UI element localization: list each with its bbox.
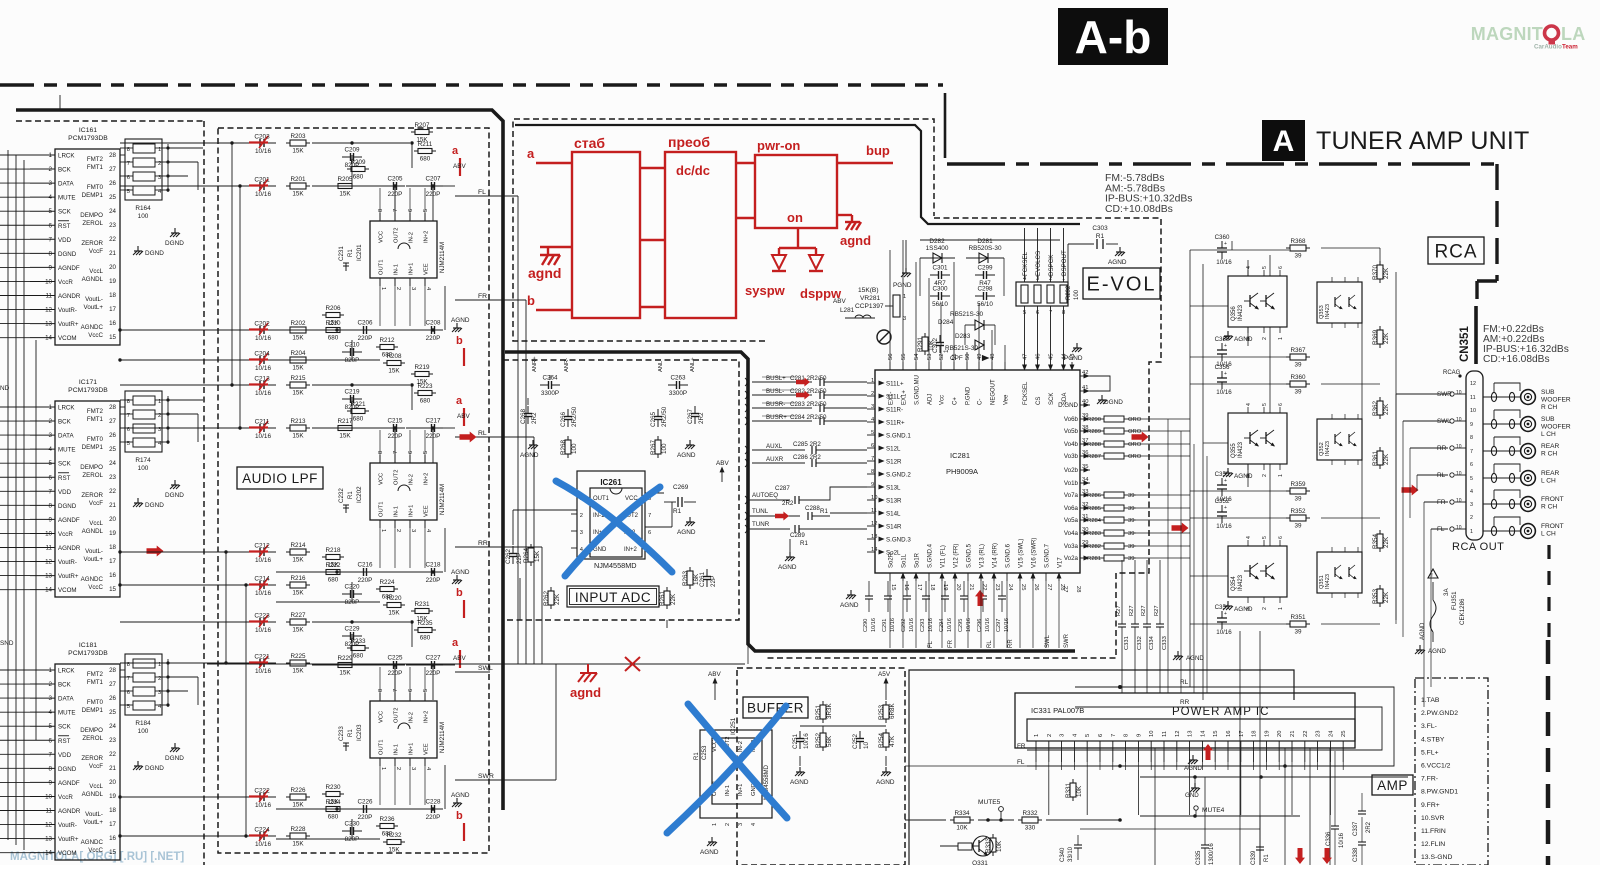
- svg-text:R351: R351: [1290, 614, 1306, 621]
- svg-text:C231: C231: [338, 246, 345, 261]
- svg-text:10K: 10K: [956, 825, 968, 832]
- node pin 29 right IC281: [1080, 545, 1090, 547]
- wire DSP dashed border right: [765, 218, 1161, 658]
- svg-text:VccF: VccF: [89, 763, 103, 770]
- svg-text:C214: C214: [254, 576, 270, 583]
- svg-text:Vcc: Vcc: [940, 395, 946, 405]
- transistor Q353 IN423 pair: [1317, 282, 1362, 323]
- svg-text:VCC: VCC: [379, 711, 385, 723]
- svg-text:MUTE: MUTE: [58, 447, 76, 454]
- svg-text:330: 330: [1025, 825, 1036, 832]
- svg-text:VDD: VDD: [58, 489, 72, 496]
- svg-text:R27: R27: [1154, 605, 1160, 616]
- svg-text:6: 6: [1278, 266, 1284, 269]
- svg-text:WOOFER: WOOFER: [1541, 397, 1571, 404]
- svg-text:R226: R226: [290, 787, 306, 794]
- svg-text:25: 25: [109, 446, 116, 453]
- svg-text:SWL: SWL: [478, 665, 493, 672]
- svg-text:FL: FL: [1437, 526, 1445, 533]
- svg-text:18: 18: [109, 292, 116, 299]
- svg-text:IN-1: IN-1: [394, 744, 400, 755]
- svg-text:R263: R263: [682, 570, 689, 586]
- wire mute row: [905, 819, 946, 821]
- capacitor C208 220P: [423, 329, 432, 331]
- svg-text:D283: D283: [955, 333, 971, 340]
- svg-text:R27: R27: [1141, 605, 1147, 616]
- svg-text:26: 26: [109, 432, 116, 439]
- capacitor C266 2R2/50: [567, 409, 569, 417]
- node AUTOEQ: [748, 499, 790, 501]
- svg-text:22K: 22K: [554, 593, 561, 605]
- svg-text:AGND: AGND: [1420, 622, 1426, 640]
- svg-text:C291: C291: [882, 619, 888, 632]
- resistor R287 ORO: [1104, 453, 1124, 459]
- svg-text:R368: R368: [1290, 238, 1306, 245]
- svg-text:EX1+: EX1+: [902, 390, 908, 405]
- svg-text:15K: 15K: [339, 191, 351, 198]
- svg-text:So1L: So1L: [902, 553, 908, 568]
- svg-text:20: 20: [109, 779, 116, 786]
- svg-text:RL: RL: [1437, 472, 1446, 479]
- ground AGND right of IC261: [689, 517, 691, 522]
- svg-text:39: 39: [1128, 493, 1134, 499]
- svg-text:R291: R291: [917, 336, 924, 352]
- svg-text:C352: C352: [1215, 498, 1230, 505]
- svg-text:C222: C222: [254, 788, 270, 795]
- svg-text:RCA: RCA: [1434, 241, 1477, 262]
- svg-text:C302: C302: [932, 337, 939, 353]
- node pin 38 right IC281: [1080, 430, 1090, 432]
- svg-text:AGND: AGND: [700, 849, 719, 856]
- svg-text:22K: 22K: [1383, 332, 1390, 344]
- svg-text:S12R: S12R: [886, 459, 902, 466]
- node BUSL+: [752, 381, 812, 383]
- svg-text:11: 11: [1162, 731, 1168, 737]
- capacitor C360 10/16: [1221, 241, 1223, 248]
- svg-text:3: 3: [903, 316, 906, 322]
- wire pin list dash-dot box: [1415, 678, 1488, 865]
- svg-text:18: 18: [1252, 731, 1258, 737]
- svg-text:OUT1: OUT1: [379, 260, 385, 275]
- svg-text:10: 10: [1456, 417, 1462, 423]
- svg-text:C218: C218: [425, 562, 441, 569]
- svg-text:3: 3: [410, 287, 416, 290]
- op-amp IC202 NJM2114M: [370, 463, 437, 520]
- svg-text:56: 56: [888, 354, 894, 360]
- svg-text:VCOM: VCOM: [58, 850, 77, 857]
- svg-text:VDD: VDD: [58, 237, 72, 244]
- resistor R216 15K: [290, 582, 306, 588]
- svg-text:39: 39: [1128, 506, 1134, 512]
- svg-text:4: 4: [1246, 266, 1252, 269]
- svg-text:IN423: IN423: [1325, 441, 1331, 456]
- svg-text:7.FR-: 7.FR-: [1421, 776, 1438, 783]
- svg-text:R212: R212: [379, 337, 395, 344]
- svg-text:LRCK: LRCK: [58, 405, 75, 412]
- svg-text:C213: C213: [254, 376, 270, 383]
- svg-text:R CH: R CH: [1541, 451, 1557, 458]
- svg-text:CarAudio: CarAudio: [1534, 44, 1562, 51]
- svg-text:8: 8: [378, 451, 384, 454]
- svg-text:220P: 220P: [426, 433, 441, 440]
- svg-text:Vo3b: Vo3b: [1064, 453, 1079, 460]
- svg-text:10: 10: [1456, 471, 1462, 477]
- svg-text:AGND: AGND: [1186, 655, 1204, 662]
- svg-text:A: A: [1273, 125, 1295, 158]
- resistor R288 ORO: [1104, 441, 1124, 447]
- resistor R223 680: [418, 391, 432, 396]
- svg-text:SCK: SCK: [1049, 393, 1055, 405]
- node X mark red: [625, 657, 640, 671]
- svg-text:agnd: agnd: [570, 685, 601, 700]
- capacitor C294 10/16: [944, 581, 946, 596]
- svg-text:dc/dc: dc/dc: [676, 163, 710, 178]
- svg-text:6: 6: [1470, 462, 1473, 468]
- svg-text:680: 680: [353, 174, 364, 181]
- capacitor C351 10/16: [1221, 611, 1223, 618]
- capacitor C221 10/16: [222, 662, 248, 664]
- wire medium frame around DSP: [515, 125, 1080, 224]
- wire left dashed vertical: [203, 121, 205, 865]
- svg-text:SCK: SCK: [58, 724, 72, 731]
- resistor R353 22K: [1377, 589, 1383, 603]
- svg-text:R211: R211: [418, 141, 433, 148]
- svg-text:AGND: AGND: [1234, 473, 1253, 480]
- resistor R286 39: [1104, 492, 1124, 498]
- ground AGND below IC281: [850, 590, 852, 595]
- svg-text:S11L+: S11L+: [886, 381, 904, 388]
- node pin Vee top IC281: [1004, 362, 1006, 370]
- svg-text:IC261: IC261: [600, 478, 622, 487]
- svg-text:стаб: стаб: [574, 135, 605, 151]
- svg-text:16: 16: [903, 584, 909, 590]
- label AUDIO LPF box: [237, 467, 323, 489]
- svg-text:ORO: ORO: [1128, 454, 1142, 460]
- svg-text:27: 27: [1062, 586, 1068, 592]
- svg-text:R1: R1: [348, 491, 354, 499]
- svg-text:15K: 15K: [339, 670, 351, 677]
- node AUXL: [752, 449, 805, 451]
- capacitor C298 56/10: [975, 295, 984, 297]
- svg-text:4: 4: [1246, 536, 1252, 539]
- arrow red bottom 2: [1322, 848, 1332, 864]
- svg-text:39: 39: [1128, 531, 1134, 537]
- svg-text:7: 7: [1111, 734, 1117, 737]
- svg-text:220P: 220P: [426, 335, 441, 342]
- svg-text:15: 15: [109, 849, 116, 856]
- wire DAC to LPF rows: [120, 142, 222, 144]
- capacitor C262 22P: [512, 546, 514, 554]
- node pin 27 IC281 S.GND.7: [1045, 573, 1047, 581]
- svg-text:22K: 22K: [1383, 536, 1390, 548]
- svg-text:55: 55: [901, 354, 907, 360]
- svg-text:MUTE: MUTE: [58, 195, 76, 202]
- ground AGND adc left: [532, 440, 534, 445]
- label BUFFER box: [743, 697, 808, 718]
- op-amp IC203 NJM2114M: [370, 701, 437, 758]
- svg-text:16: 16: [109, 320, 116, 327]
- svg-text:21: 21: [109, 502, 116, 509]
- svg-text:C211: C211: [255, 419, 270, 426]
- svg-text:24: 24: [1328, 730, 1334, 737]
- resistor R264 15K: [528, 548, 534, 562]
- svg-text:21: 21: [968, 584, 974, 590]
- svg-text:SUB: SUB: [1541, 389, 1555, 396]
- svg-text:b: b: [456, 810, 463, 822]
- svg-text:AGND: AGND: [451, 569, 470, 576]
- svg-text:VccC: VccC: [88, 332, 103, 339]
- svg-text:C265: C265: [650, 411, 657, 427]
- svg-text:Q355: Q355: [1231, 443, 1237, 458]
- svg-text:R292: R292: [1066, 285, 1072, 300]
- svg-text:49: 49: [977, 354, 983, 360]
- svg-text:2R2: 2R2: [698, 412, 705, 424]
- svg-text:3300P: 3300P: [669, 390, 687, 397]
- label AMP box: [1372, 775, 1413, 795]
- svg-text:S11R-: S11R-: [886, 407, 903, 414]
- ground AGND adc right: [689, 440, 691, 445]
- label A TUNER AMP UNIT: [1262, 120, 1305, 161]
- svg-text:BUFFER: BUFFER: [747, 700, 804, 715]
- resistor R360 39: [1290, 381, 1306, 387]
- svg-text:7: 7: [648, 513, 651, 519]
- svg-text:C267: C267: [687, 408, 694, 424]
- svg-text:IC171: IC171: [79, 379, 97, 386]
- resistor R291 10K: [922, 337, 928, 351]
- resistor R228 15K: [290, 833, 306, 839]
- svg-text:10/16: 10/16: [909, 618, 915, 632]
- capacitor C228 220P: [423, 808, 432, 810]
- resistor R289 ORO: [1104, 428, 1124, 434]
- svg-text:5: 5: [423, 209, 429, 212]
- svg-text:R254: R254: [878, 732, 885, 748]
- capacitor C217 220P: [423, 427, 432, 429]
- svg-text:MUTE5: MUTE5: [978, 799, 1001, 806]
- wire unit border right vertical: [1495, 164, 1498, 281]
- svg-text:DGND: DGND: [165, 240, 184, 247]
- resistor R369 22K: [1377, 330, 1383, 344]
- svg-text:46: 46: [1036, 354, 1042, 360]
- resistor network R184 100: [125, 654, 162, 715]
- resistor R263 16K: [687, 571, 693, 585]
- svg-text:PCM1793DB: PCM1793DB: [68, 650, 108, 657]
- svg-text:FR: FR: [478, 293, 487, 300]
- svg-text:FCKSEL: FCKSEL: [1023, 381, 1029, 405]
- svg-text:REAR: REAR: [1541, 443, 1560, 450]
- svg-text:R235: R235: [417, 620, 433, 627]
- svg-text:10/16: 10/16: [1216, 523, 1232, 530]
- svg-text:POWER AMP IC: POWER AMP IC: [1172, 706, 1269, 718]
- svg-text:50: 50: [965, 354, 971, 360]
- svg-text:R225: R225: [290, 653, 306, 660]
- svg-text:VoutL+: VoutL+: [84, 556, 104, 563]
- svg-text:15K: 15K: [292, 365, 304, 372]
- ground agnd red (below ADC): [587, 664, 589, 673]
- wire lpf row B: [312, 185, 386, 187]
- wire unit border corner vertical: [944, 93, 947, 158]
- node pin 14 IC281 So2L: [867, 551, 875, 553]
- capacitor C302: [939, 335, 941, 343]
- svg-text:R204: R204: [290, 350, 306, 357]
- capacitor C261 22P: [706, 569, 708, 577]
- svg-text:RB521S-30: RB521S-30: [945, 345, 978, 352]
- svg-text:IC181: IC181: [79, 642, 97, 649]
- node pin 50 top IC281: [966, 362, 968, 370]
- svg-text:ABV: ABV: [716, 460, 730, 467]
- svg-text:FU351: FU351: [1451, 591, 1458, 610]
- capacitor C356 10/16: [1221, 371, 1223, 378]
- svg-text:39: 39: [1128, 518, 1134, 524]
- svg-text:43: 43: [1070, 354, 1076, 360]
- resistor R370 22K: [1377, 265, 1383, 279]
- svg-text:680: 680: [420, 156, 431, 163]
- svg-text:24: 24: [109, 723, 116, 730]
- svg-text:ZEROR: ZEROR: [81, 492, 103, 499]
- svg-text:23: 23: [109, 737, 116, 744]
- capacitor C268 2R2: [527, 406, 529, 414]
- svg-text:C206: C206: [357, 320, 373, 327]
- svg-text:10/16: 10/16: [890, 618, 896, 632]
- node pin 24 IC281 S.GND.6: [1006, 573, 1008, 581]
- svg-text:IN+2: IN+2: [424, 473, 430, 485]
- svg-text:R232: R232: [386, 832, 402, 839]
- svg-text:54: 54: [914, 353, 920, 360]
- svg-text:R359: R359: [1290, 481, 1306, 488]
- svg-text:DATA: DATA: [58, 433, 74, 440]
- svg-text:RR: RR: [1437, 445, 1447, 452]
- ground AGND under IC251: [711, 837, 713, 842]
- capacitor C295 10/16: [963, 581, 965, 596]
- node pin 36 right IC281: [1080, 455, 1090, 457]
- wire lpf opamp pin risers: [379, 667, 381, 700]
- connector RCA jack FRONT L CH: [1483, 530, 1520, 532]
- svg-text:VoutR+: VoutR+: [58, 573, 79, 580]
- node pin 18 IC281 S.GND.4: [928, 573, 930, 581]
- svg-text:9.FR+: 9.FR+: [1421, 802, 1440, 809]
- svg-text:AGND: AGND: [520, 452, 539, 459]
- op-amp IC261 NJM4558MD: [577, 471, 645, 559]
- svg-text:R281: R281: [1087, 556, 1101, 562]
- svg-text:C212: C212: [254, 543, 270, 550]
- resistor R253 6R8K: [883, 705, 889, 719]
- svg-text:10: 10: [1456, 390, 1462, 396]
- svg-text:680: 680: [420, 398, 431, 405]
- svg-text:C334: C334: [1149, 635, 1155, 650]
- svg-text:20: 20: [1277, 731, 1283, 737]
- svg-text:VoutR-: VoutR-: [58, 559, 77, 566]
- svg-text:WOOFER: WOOFER: [1541, 424, 1571, 431]
- svg-text:20: 20: [109, 264, 116, 271]
- svg-text:ANL-: ANL-: [658, 359, 664, 372]
- svg-text:C292: C292: [901, 619, 907, 632]
- svg-text:RL: RL: [478, 430, 487, 437]
- svg-text:R228: R228: [290, 826, 306, 833]
- svg-text:BCK: BCK: [58, 682, 72, 689]
- svg-text:S13L: S13L: [886, 485, 901, 492]
- node junction dots LPF rows: [230, 141, 233, 144]
- svg-text:1: 1: [380, 767, 386, 770]
- svg-text:A-b: A-b: [1075, 11, 1152, 63]
- node pin 49 top IC281: [978, 362, 980, 370]
- svg-text:S11L-: S11L-: [886, 394, 902, 401]
- capacitor C352 10/16: [1221, 505, 1223, 512]
- svg-text:AGNDL: AGNDL: [82, 276, 104, 283]
- capacitor C336 10/16: [1334, 751, 1336, 826]
- svg-text:AGND: AGND: [1184, 765, 1202, 772]
- resistor R361 22K: [1377, 451, 1383, 465]
- node BUSL-: [752, 394, 812, 396]
- svg-text:RR: RR: [1008, 639, 1014, 648]
- svg-text:20: 20: [109, 516, 116, 523]
- svg-text:V12 (FR): V12 (FR): [954, 544, 960, 568]
- svg-text:C290: C290: [863, 619, 869, 632]
- svg-text:6: 6: [871, 443, 874, 449]
- svg-text:22P: 22P: [516, 553, 523, 564]
- wire lpf row B: [312, 427, 386, 429]
- svg-text:C220: C220: [344, 584, 360, 591]
- svg-text:17: 17: [916, 584, 922, 590]
- svg-text:16: 16: [109, 572, 116, 579]
- svg-text:RST: RST: [58, 738, 71, 745]
- svg-text:DATA: DATA: [58, 696, 74, 703]
- svg-text:14: 14: [871, 547, 878, 553]
- svg-text:10/16: 10/16: [255, 148, 271, 155]
- svg-text:FMT0: FMT0: [87, 436, 104, 443]
- connector 4-bit E-VOL header: [1016, 282, 1068, 306]
- svg-text:Team: Team: [1562, 44, 1578, 51]
- svg-text:21: 21: [109, 765, 116, 772]
- node pin 43 top IC281: [1071, 362, 1073, 370]
- svg-text:AGNDL: AGNDL: [82, 791, 104, 798]
- transistor Q331: [973, 836, 993, 856]
- svg-text:FMT2: FMT2: [87, 671, 104, 678]
- svg-text:11: 11: [1470, 395, 1476, 401]
- svg-text:33/10: 33/10: [1068, 846, 1074, 862]
- svg-text:V14 (RR): V14 (RR): [993, 543, 999, 568]
- svg-text:RR: RR: [1180, 699, 1190, 706]
- svg-text:VoutR+: VoutR+: [58, 836, 79, 843]
- svg-text:C229: C229: [344, 626, 360, 633]
- ground DGND pin22 IC161: [137, 246, 139, 251]
- svg-text:23: 23: [109, 474, 116, 481]
- svg-text:DSPCK: DSPCK: [1048, 254, 1055, 276]
- svg-text:OUT2: OUT2: [394, 470, 400, 485]
- wire left bus verticals: [7, 150, 9, 840]
- svg-text:CCP1397: CCP1397: [855, 303, 884, 310]
- svg-text:7: 7: [393, 209, 399, 212]
- node pin 53 top IC281: [928, 362, 930, 370]
- svg-text:AGNDF: AGNDF: [58, 517, 80, 524]
- resistor R333 10K: [990, 838, 996, 852]
- svg-text:6: 6: [408, 451, 414, 454]
- svg-text:56K: 56K: [826, 735, 833, 747]
- svg-text:D.GND: D.GND: [1058, 402, 1078, 409]
- svg-text:C233: C233: [338, 726, 345, 741]
- connector CN351 body: [1466, 371, 1483, 540]
- svg-text:IN423: IN423: [1238, 304, 1244, 321]
- svg-text:IN+2: IN+2: [424, 711, 430, 723]
- ground DGND near IC181: [174, 743, 176, 748]
- capacitor C210 820P: [342, 351, 351, 353]
- svg-text:14: 14: [1200, 730, 1206, 737]
- svg-text:REAR: REAR: [1541, 470, 1560, 477]
- svg-text:15K: 15K: [292, 668, 304, 675]
- svg-text:18: 18: [109, 807, 116, 814]
- svg-text:VoutL-: VoutL-: [85, 811, 103, 818]
- wire DSP bottom verticals: [889, 581, 891, 648]
- svg-text:22: 22: [109, 488, 116, 495]
- svg-text:820P: 820P: [345, 836, 360, 843]
